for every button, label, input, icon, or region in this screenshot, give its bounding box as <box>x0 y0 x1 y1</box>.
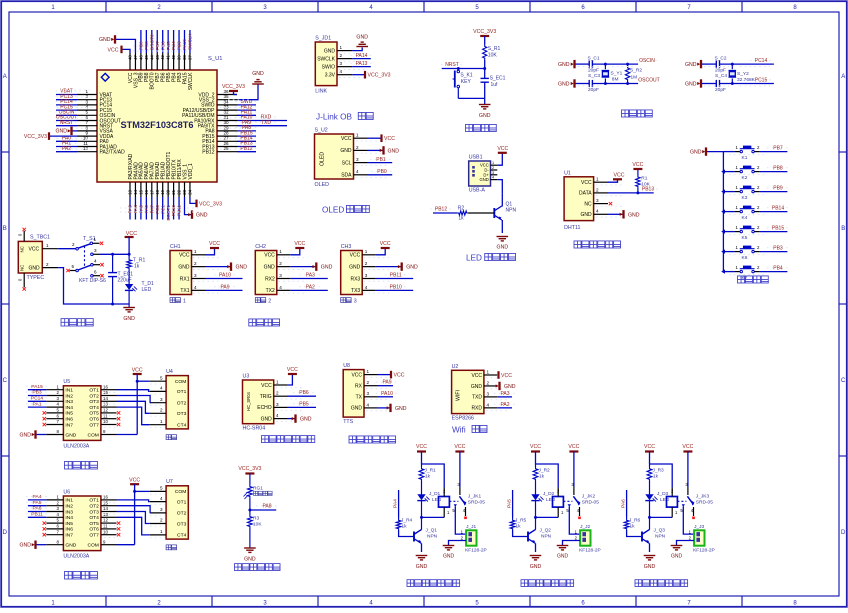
svg-text:24: 24 <box>187 189 192 194</box>
resistor R1 pullup <box>637 188 639 193</box>
svg-text:B: B <box>3 226 7 232</box>
svg-text:VCC_3V3: VCC_3V3 <box>368 73 391 79</box>
power VCC at CH2 <box>290 248 300 255</box>
svg-text:VCC: VCC <box>132 368 143 374</box>
texture dots oled pins <box>356 140 388 142</box>
svg-text:2: 2 <box>276 391 279 396</box>
power VCC at usb pin1 <box>497 153 502 165</box>
svg-text:R3: R3 <box>253 516 259 522</box>
svg-text:VCC_3V3: VCC_3V3 <box>238 466 261 472</box>
svg-text:VCC: VCC <box>581 180 592 186</box>
resistor J_R2 <box>535 464 537 467</box>
wire U7 COM rail <box>135 490 150 492</box>
wire relay J_R2 coil branch <box>536 464 559 488</box>
svg-text:42: 42 <box>160 55 165 60</box>
net PB14 key row 4 <box>767 207 789 209</box>
svg-text:OLED: OLED <box>315 182 330 188</box>
no connect U5 OT6 <box>117 417 120 420</box>
connector S_JD1 pins 1-4 <box>337 50 352 52</box>
wire wifi rxd net PA2 <box>497 407 512 409</box>
connector J_J2 body <box>580 530 590 545</box>
resistor J_R3 <box>649 464 651 467</box>
svg-text:44: 44 <box>149 55 154 60</box>
wire relay J_R3 coil branch <box>650 464 673 488</box>
svg-text:PB5: PB5 <box>166 41 171 50</box>
resistor R2 <box>457 211 468 215</box>
svg-text:GND: GND <box>416 564 428 570</box>
svg-text:1: 1 <box>94 237 97 242</box>
ground relay J_R1 emitter <box>416 556 428 560</box>
key bus wire <box>722 152 724 272</box>
capacitor S_C2 <box>716 61 719 68</box>
svg-text:TXD: TXD <box>261 120 271 126</box>
connector USB1 body <box>469 161 491 186</box>
wire CH1 pin4 net PA9 <box>205 289 243 291</box>
svg-text:OT3: OT3 <box>89 509 99 515</box>
ground at jlink <box>356 42 368 46</box>
svg-text:GND: GND <box>497 245 509 251</box>
wire crystal1 top rail <box>576 63 590 65</box>
resistor J_R4 base <box>398 517 400 520</box>
svg-text:1: 1 <box>487 369 490 374</box>
svg-text:GND: GND <box>388 148 400 154</box>
svg-text:VCC_3V3: VCC_3V3 <box>222 84 245 90</box>
svg-text:IN7: IN7 <box>65 533 73 539</box>
svg-text:VCC: VCC <box>454 444 465 450</box>
transistor Q1 <box>501 193 503 206</box>
svg-text:RG1: RG1 <box>253 486 263 492</box>
svg-text:GND: GND <box>479 177 488 182</box>
ground at mcu pin VSS_3 <box>116 39 135 53</box>
svg-text:U8: U8 <box>343 363 350 369</box>
wire CH3 pin4 net PB10 <box>376 289 414 291</box>
relay J_JK2 coil <box>553 497 564 508</box>
svg-text:2: 2 <box>492 166 494 170</box>
svg-text:NC: NC <box>20 246 25 252</box>
svg-text:GND: GND <box>395 406 407 412</box>
svg-text:10K: 10K <box>488 53 498 59</box>
ground relay J_R3 terminal <box>671 546 683 550</box>
wire light to gnd <box>249 528 251 548</box>
svg-text:RX2: RX2 <box>265 276 275 282</box>
sensor U1 body <box>564 177 594 221</box>
svg-text:2: 2 <box>356 145 359 150</box>
wire crystal1 bottom rail <box>576 83 590 85</box>
crystal S_Y2 <box>731 64 733 69</box>
svg-text:2: 2 <box>367 380 370 385</box>
connector CH2 body <box>255 251 276 295</box>
no connect dht11 pin3 <box>609 202 612 205</box>
svg-text:PB11: PB11 <box>31 512 43 518</box>
connector U7 comment motor <box>166 545 171 550</box>
svg-text:4: 4 <box>365 285 368 290</box>
driver U5 pins <box>46 389 63 391</box>
wire OT2 to U4 <box>117 396 151 403</box>
wire relay J_R1 control net PA4 <box>398 490 400 517</box>
svg-text:OLED: OLED <box>322 206 344 215</box>
svg-text:LED: LED <box>660 497 670 503</box>
svg-text:OT2: OT2 <box>177 511 187 517</box>
svg-text:4: 4 <box>160 386 163 391</box>
svg-text:A: A <box>3 74 7 80</box>
svg-text:GND: GND <box>123 316 135 322</box>
power VCC_3V3 at jlink pin4 <box>352 74 364 76</box>
svg-text:VCC: VCC <box>682 444 693 450</box>
svg-text:J_JK2: J_JK2 <box>582 493 596 499</box>
capacitor S_EC1 <box>484 69 486 79</box>
junction reset node <box>457 67 460 70</box>
svg-text:1: 1 <box>367 369 370 374</box>
svg-text:SRD-05: SRD-05 <box>468 499 485 505</box>
svg-text:S_C4: S_C4 <box>715 73 727 79</box>
svg-text:22: 22 <box>177 189 182 194</box>
switch T_S1 pin4 <box>91 263 94 266</box>
svg-text:4: 4 <box>356 169 359 174</box>
svg-text:OT1: OT1 <box>89 498 99 504</box>
svg-text:NPN: NPN <box>655 534 666 540</box>
connector CH3 body <box>341 251 363 295</box>
svg-text:GND: GND <box>236 265 248 271</box>
texture dots wifi pins <box>486 377 508 379</box>
svg-text:VCC: VCC <box>394 373 405 379</box>
svg-text:1k: 1k <box>653 474 659 480</box>
svg-text:GND: GND <box>65 543 76 549</box>
ground voice <box>377 407 390 409</box>
svg-text:NPN: NPN <box>541 534 552 540</box>
svg-text:TXD: TXD <box>472 395 482 401</box>
texture dots key row 7 <box>729 274 765 276</box>
driver U6 body <box>63 496 101 551</box>
svg-text:IN6: IN6 <box>65 527 73 533</box>
svg-text:PB12: PB12 <box>202 150 214 156</box>
module S_U2 pins 1-4 <box>354 137 368 139</box>
svg-text:VCC: VCC <box>614 172 625 178</box>
connector CH3 pins 1-4 <box>362 254 376 256</box>
key K6 <box>740 250 742 252</box>
module U8 pins 1-4 <box>364 374 377 376</box>
wire relay J_R3 coil bottom <box>650 516 673 518</box>
no connect U5 OT7 <box>117 423 120 426</box>
mcu right pin wires and net labels <box>237 104 256 106</box>
svg-text:1uf: 1uf <box>491 82 499 88</box>
svg-text:S_Y2: S_Y2 <box>737 71 749 77</box>
svg-text:3: 3 <box>160 397 163 402</box>
svg-text:KEY: KEY <box>461 79 472 85</box>
svg-text:8M: 8M <box>612 77 619 83</box>
svg-text:PB7: PB7 <box>773 145 783 151</box>
svg-text:J_R4: J_R4 <box>401 518 413 524</box>
texture dots CH3 pins <box>364 257 393 259</box>
module U8 body <box>343 370 364 418</box>
svg-text:OT3: OT3 <box>177 411 187 417</box>
svg-text:USB1: USB1 <box>469 155 483 161</box>
texture dots mcu left pins <box>57 96 93 98</box>
svg-text:TX3: TX3 <box>351 288 360 294</box>
svg-text:STM32F103C8T6: STM32F103C8T6 <box>120 120 193 130</box>
svg-text:TTS: TTS <box>343 419 353 425</box>
svg-text:OT5: OT5 <box>89 521 99 527</box>
svg-text:20pF: 20pF <box>588 87 599 93</box>
svg-text:A: A <box>841 74 845 80</box>
svg-text:PA10: PA10 <box>219 273 231 279</box>
mcu bottom pins 13-24 <box>129 182 131 197</box>
svg-text:GND: GND <box>557 554 569 560</box>
switch T_S1 pin5 contact <box>76 269 79 272</box>
svg-text:OT6: OT6 <box>89 527 99 533</box>
wire OT4 to U7 <box>117 517 150 535</box>
svg-text:SWCLK: SWCLK <box>188 72 194 90</box>
svg-text:4: 4 <box>160 496 163 501</box>
svg-text:GND: GND <box>264 264 276 270</box>
svg-text:12: 12 <box>103 408 108 413</box>
svg-text:5: 5 <box>72 264 75 269</box>
no connect U5 IN5 <box>43 411 46 414</box>
wire relay J_R2 no contact down <box>568 504 571 507</box>
svg-text:20: 20 <box>166 189 171 194</box>
svg-text:3: 3 <box>354 299 357 305</box>
svg-text:PB10: PB10 <box>390 284 402 290</box>
power VCC at mcu pin VCC <box>122 49 131 53</box>
svg-text:4: 4 <box>487 402 490 407</box>
ground at mcu pin VSS_2 <box>237 84 258 100</box>
svg-text:BOOT1: BOOT1 <box>166 205 171 221</box>
wire oled pin3 net PB1 <box>367 162 392 164</box>
svg-text:VCC_3V3: VCC_3V3 <box>199 201 222 207</box>
junction key bus 3 <box>721 209 725 213</box>
svg-text:4: 4 <box>279 285 282 290</box>
svg-text:K5: K5 <box>742 235 748 241</box>
svg-text:43: 43 <box>155 55 160 60</box>
svg-text:PA6: PA6 <box>33 506 42 512</box>
svg-text:VCC: VCC <box>341 136 352 142</box>
svg-text:OSCOUT: OSCOUT <box>638 78 659 84</box>
svg-text:S_TBC1: S_TBC1 <box>30 235 50 241</box>
svg-text:IN3: IN3 <box>65 509 73 515</box>
power VCC voice <box>377 374 390 376</box>
connector CH2 comment <box>255 298 260 303</box>
svg-text:PA2: PA2 <box>306 284 315 290</box>
svg-text:3: 3 <box>160 507 163 512</box>
svg-text:GND: GND <box>244 557 256 563</box>
svg-text:PB5: PB5 <box>299 401 309 407</box>
svg-text:RX1: RX1 <box>180 276 190 282</box>
svg-text:1M: 1M <box>631 75 638 81</box>
ground relay J_R3 emitter <box>644 556 656 560</box>
caption light collect circuit <box>235 564 242 571</box>
wire J_J1 pin2 to gnd <box>449 541 467 546</box>
wire oled pin4 net PB0 <box>367 174 392 176</box>
svg-text:SWCLK: SWCLK <box>317 56 335 62</box>
svg-text:1: 1 <box>492 161 494 165</box>
caption temperature humidity sensor <box>574 241 581 248</box>
capacitor S_C1 <box>589 61 592 68</box>
svg-text:PB6: PB6 <box>160 41 165 50</box>
svg-text:VCC_3V3: VCC_3V3 <box>24 134 47 140</box>
svg-text:1: 1 <box>183 299 186 305</box>
svg-text:15: 15 <box>103 500 108 505</box>
relay J_JK1 coil <box>439 497 450 508</box>
svg-text:IN1: IN1 <box>65 498 73 504</box>
net PC14 right <box>750 60 772 62</box>
module S_U2 body <box>315 134 354 179</box>
svg-text:10: 10 <box>103 419 108 424</box>
svg-text:WIFI: WIFI <box>456 390 462 401</box>
wire relay J_R2 collector <box>535 517 537 529</box>
wire key row 6 right <box>754 251 759 253</box>
wire U6 IN4 net PB11 <box>28 516 46 518</box>
svg-text:1k: 1k <box>458 216 464 222</box>
svg-text:GND: GND <box>530 564 542 570</box>
svg-text:1: 1 <box>365 249 368 254</box>
wire key row 6 left <box>723 251 734 253</box>
svg-text:VCC: VCC <box>497 146 508 152</box>
connector S_TBC1 body <box>18 241 42 273</box>
svg-text:3: 3 <box>492 171 494 175</box>
svg-text:DATA: DATA <box>579 191 592 197</box>
mcu top pin wires and rotated net labels <box>140 30 142 53</box>
svg-text:B: B <box>841 226 845 232</box>
net PB15 key row 5 <box>767 227 789 229</box>
no connect U6 IN7 <box>43 533 46 536</box>
svg-text:PC14: PC14 <box>31 396 44 402</box>
key S_K1 <box>457 69 459 71</box>
wire reset bottom <box>458 97 484 99</box>
wire U6 IN1 net PA4 <box>28 499 46 501</box>
svg-text:PB3: PB3 <box>32 390 42 396</box>
svg-text:13: 13 <box>103 512 108 517</box>
svg-text:PA2: PA2 <box>62 146 71 152</box>
typec pin 1 <box>42 248 58 250</box>
svg-text:37: 37 <box>187 55 192 60</box>
texture dots voice pins <box>366 376 390 378</box>
svg-text:4: 4 <box>367 402 370 407</box>
wire OT4 to U4 <box>117 407 150 425</box>
svg-text:TYPEC: TYPEC <box>27 275 45 281</box>
no connect U5 IN7 <box>43 423 46 426</box>
connector CH3 comment <box>341 298 346 303</box>
power VCC ultrasonic <box>287 374 292 385</box>
svg-text:14: 14 <box>133 189 138 194</box>
wire typec vcc to switch <box>58 248 76 250</box>
svg-text:38: 38 <box>182 55 187 60</box>
svg-text:GND: GND <box>628 212 640 218</box>
texture dots jlink pins <box>339 52 368 54</box>
wire OT3 to U7 <box>117 512 150 524</box>
svg-text:J_JK1: J_JK1 <box>468 493 482 499</box>
svg-text:S_U2: S_U2 <box>315 128 328 134</box>
svg-text:2: 2 <box>72 242 75 247</box>
junction key bus 6 <box>721 269 725 273</box>
svg-text:3: 3 <box>279 273 282 278</box>
wire relay J_R1 coil bottom <box>422 516 445 518</box>
svg-text:PB14: PB14 <box>772 205 784 211</box>
svg-text:K6: K6 <box>742 255 748 261</box>
caption voice output module <box>349 436 356 443</box>
svg-text:VCC: VCC <box>530 444 541 450</box>
typec pin 2 <box>42 267 58 269</box>
svg-text:PA4: PA4 <box>33 494 42 500</box>
svg-text:OT2: OT2 <box>89 393 99 399</box>
svg-text:SRD-05: SRD-05 <box>696 499 713 505</box>
no connect U5 IN6 <box>43 417 46 420</box>
module U3 body <box>243 380 274 424</box>
svg-text:PA3: PA3 <box>306 273 315 279</box>
svg-text:TX1: TX1 <box>180 288 189 294</box>
svg-text:IN4: IN4 <box>65 405 73 411</box>
svg-text:VCC: VCC <box>29 246 40 252</box>
power VCC_3V3 at mcu pin VDD_1 <box>190 197 197 203</box>
caption ultrasonic module <box>262 436 269 443</box>
texture dots dht pins <box>596 184 625 186</box>
svg-text:45: 45 <box>144 55 149 60</box>
svg-text:GND: GND <box>351 406 363 412</box>
svg-text:4: 4 <box>94 259 97 264</box>
wire NRST <box>442 68 485 70</box>
svg-text:46: 46 <box>138 55 143 60</box>
svg-text:1k: 1k <box>425 474 431 480</box>
wire J_R4 base <box>399 530 414 537</box>
mcu bottom pin wires and rotated net labels <box>129 197 131 220</box>
svg-text:HC_SR04: HC_SR04 <box>246 391 251 411</box>
svg-text:GND: GND <box>685 62 697 68</box>
wire dht11 data <box>608 192 654 194</box>
ground at mcu pin VSSA <box>73 130 78 132</box>
svg-text:VCC: VCC <box>129 478 140 484</box>
svg-text:CH1: CH1 <box>170 244 181 250</box>
svg-text:COM: COM <box>87 432 98 438</box>
caption key circuit <box>738 276 745 283</box>
module U3 pins 1-4 <box>274 384 287 386</box>
svg-text:PB4: PB4 <box>773 265 783 271</box>
no connect U6 IN6 <box>43 527 46 530</box>
svg-text:U1: U1 <box>564 170 571 176</box>
wire key row 5 right <box>754 231 759 233</box>
svg-text:PA2: PA2 <box>500 402 509 408</box>
svg-text:S_EC1: S_EC1 <box>490 76 506 82</box>
svg-text:KF128-2P: KF128-2P <box>693 548 715 554</box>
svg-text:U5: U5 <box>63 379 70 385</box>
wire OT3 to U4 <box>117 401 150 413</box>
crystal1 junctions <box>604 63 607 66</box>
svg-text:3: 3 <box>367 391 370 396</box>
svg-text:S_K1: S_K1 <box>460 73 472 79</box>
svg-text:2: 2 <box>596 187 599 192</box>
module U2 body <box>452 370 484 413</box>
svg-text:20pF: 20pF <box>715 87 726 93</box>
svg-text:48: 48 <box>128 55 133 60</box>
svg-text:VCC: VCC <box>261 383 272 389</box>
svg-text:GND: GND <box>55 129 67 135</box>
wire relay J_R3 control net PA6 <box>626 490 628 517</box>
svg-text:4: 4 <box>596 209 599 214</box>
wire key row 1 right <box>754 151 759 153</box>
svg-text:PB3: PB3 <box>773 245 783 251</box>
svg-text:GND: GND <box>324 48 336 54</box>
wire U4 COM rail <box>137 380 150 382</box>
svg-text:OLED: OLED <box>320 152 326 166</box>
svg-text:PB11: PB11 <box>390 273 402 279</box>
svg-text:GND: GND <box>685 82 697 88</box>
connector U4 comment motor <box>166 435 171 440</box>
key K2 <box>740 170 742 172</box>
junction key bus 4 <box>721 229 725 233</box>
wire OT1 to U7 <box>117 500 150 502</box>
svg-text:10K: 10K <box>253 522 262 528</box>
svg-text:2: 2 <box>160 408 163 413</box>
svg-text:OT1: OT1 <box>89 388 99 394</box>
power VCC at CH3 <box>376 248 386 255</box>
svg-text:NRST: NRST <box>60 120 74 126</box>
